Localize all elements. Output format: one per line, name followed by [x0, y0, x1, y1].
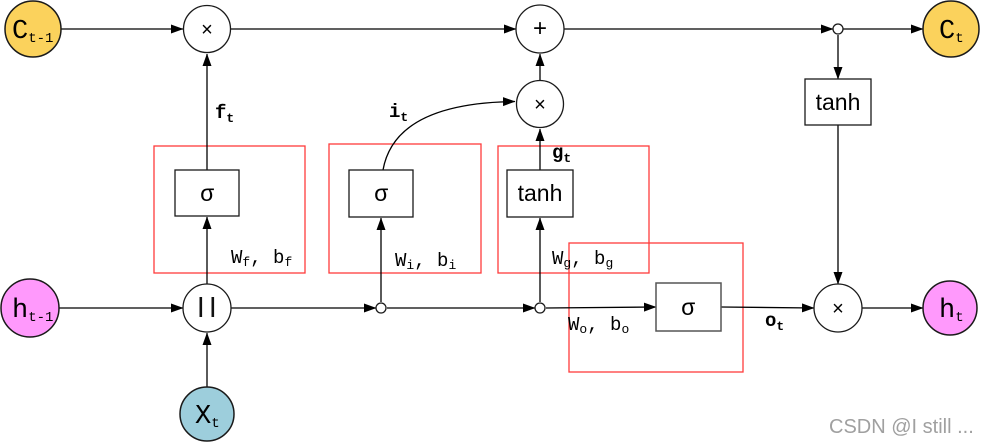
junction2 [535, 303, 545, 313]
svg-text:ft: ft [215, 102, 234, 126]
svg-text:tanh: tanh [816, 89, 861, 115]
svg-text:Wg, bg: Wg, bg [552, 248, 613, 271]
op mult1 [184, 6, 231, 53]
junction top [833, 24, 843, 34]
wire concat to junction1 [231, 307, 376, 309]
wire junction2 to tanh g [539, 218, 541, 302]
svg-text:σ: σ [374, 182, 388, 208]
wire mult2 to plus [539, 54, 541, 80]
op mult2 [517, 81, 564, 128]
svg-text:σ: σ [200, 182, 214, 208]
red box forget gate [154, 146, 305, 273]
svg-text:+: + [533, 15, 547, 42]
svg-text:Wi, bi: Wi, bi [395, 250, 456, 273]
junction1 [376, 303, 386, 313]
wire concat to sigma f [206, 217, 208, 284]
svg-text:Wo, bo: Wo, bo [568, 314, 629, 337]
red box input gate [329, 144, 481, 273]
svg-text:×: × [201, 19, 213, 41]
red box candidate gate [498, 146, 649, 273]
wire plus to junction top [564, 28, 833, 30]
svg-text:it: it [389, 101, 408, 125]
wire tanh g to mult2 [539, 129, 541, 170]
wire junction1 to junction2 [387, 307, 535, 309]
wire mult1 to plus [231, 28, 516, 30]
svg-text:×: × [534, 94, 546, 116]
wire Ct-1 to mult1 [61, 28, 183, 30]
box sigma i [349, 170, 413, 217]
wire mult3 to ht [862, 307, 923, 309]
box tanh out [805, 79, 871, 125]
box tanh g [507, 170, 573, 217]
svg-text:tanh: tanh [518, 180, 563, 206]
wire ht-1 to concat [59, 307, 183, 309]
op plus [516, 5, 564, 53]
node Ct-1 [5, 1, 61, 57]
svg-text:×: × [832, 298, 844, 320]
wire sigma f to mult1 [206, 54, 208, 170]
wire tanh out to mult3 [837, 125, 839, 284]
wire sigma o to mult3 [721, 307, 814, 308]
svg-text:σ: σ [681, 296, 695, 322]
wire junction top to tanh out [837, 35, 839, 79]
op concat [183, 284, 231, 332]
svg-text:ot: ot [765, 310, 784, 334]
svg-text:CSDN @I still ...: CSDN @I still ... [829, 416, 974, 438]
wire junction top to Ct [843, 28, 923, 30]
node Xt [180, 387, 234, 441]
box sigma o [656, 283, 721, 331]
red box output gate [569, 243, 743, 372]
wire Xt to concat [206, 333, 208, 387]
wire sigma i to mult2 curve [383, 102, 515, 171]
wire junction2 to sigma o [546, 307, 656, 308]
op mult3 [814, 284, 862, 332]
node Ct [923, 1, 979, 57]
node ht-1 [1, 279, 59, 337]
svg-text:Wf, bf: Wf, bf [231, 247, 292, 270]
box sigma f [175, 170, 239, 216]
node ht [923, 281, 977, 335]
wire junction1 to sigma i [380, 218, 382, 302]
